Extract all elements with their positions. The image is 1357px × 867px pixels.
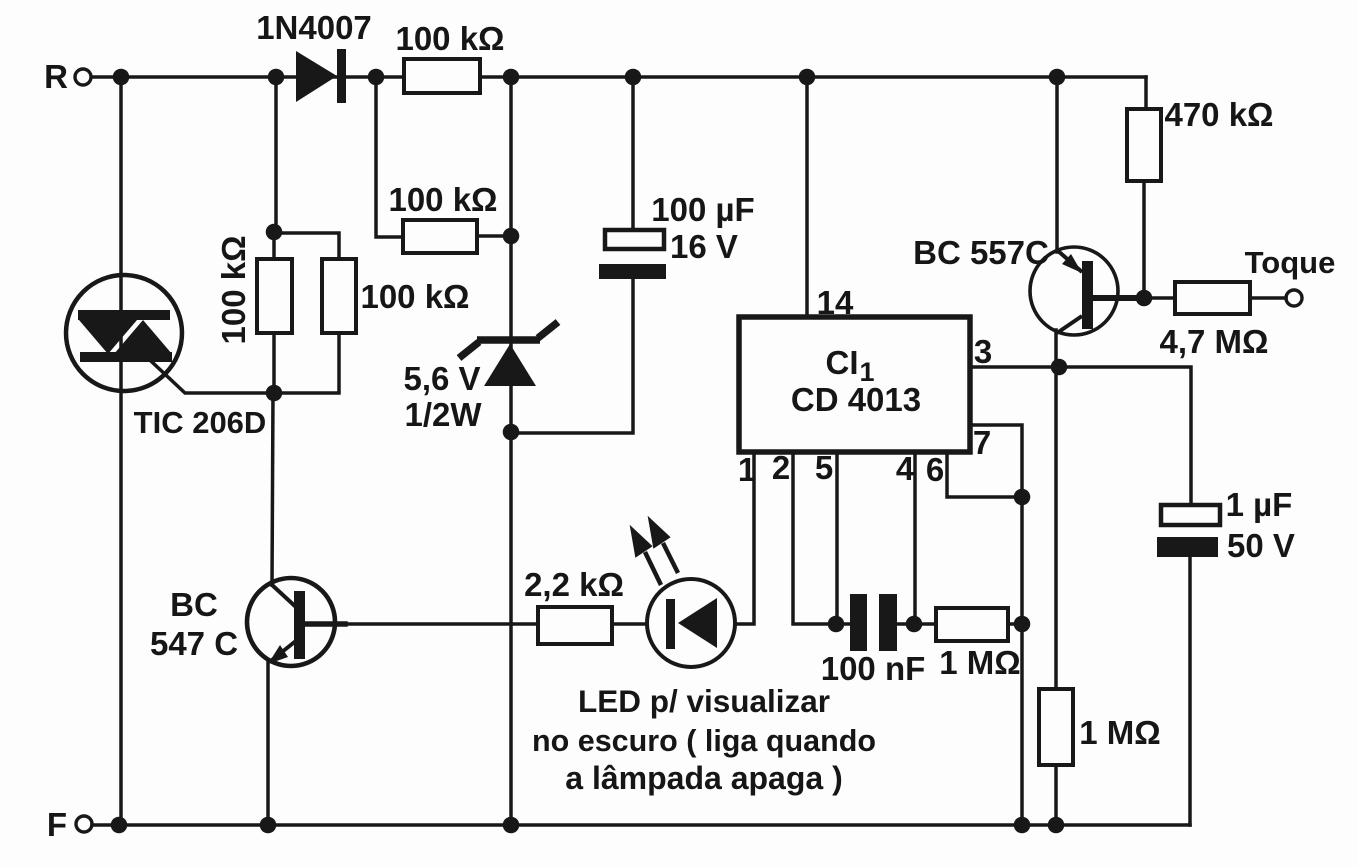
svg-text:1 MΩ: 1 MΩ — [939, 644, 1020, 681]
op-amp U1 CD4013 box — [739, 317, 970, 452]
wire 4.7M to Toque terminal — [1250, 296, 1286, 300]
wire pin 3 to 1uF — [970, 367, 1191, 505]
svg-text:100 kΩ: 100 kΩ — [395, 20, 504, 57]
resistor R5 2.2k — [538, 607, 612, 644]
junction second 100k right — [503, 228, 520, 245]
svg-text:R: R — [44, 58, 68, 95]
junction pin 4 node — [906, 616, 923, 633]
wire pin 5 — [835, 452, 839, 624]
resistor R3 100k vertical left — [257, 259, 292, 333]
wire 100uF bottom to zener node — [511, 279, 633, 433]
wire pin 7 — [970, 425, 1022, 497]
wire TIC gate — [152, 362, 274, 393]
wire BC547 base to 2.2k — [304, 621, 345, 627]
junction BC547 emitter rail — [260, 817, 277, 834]
svg-text:4: 4 — [896, 450, 915, 487]
junction TIC gate node — [266, 385, 283, 402]
resistor R7 1M vertical — [1039, 689, 1073, 765]
svg-text:1: 1 — [738, 451, 756, 488]
wire left vertical R-to-F — [119, 77, 123, 825]
svg-text:100 kΩ: 100 kΩ — [360, 278, 469, 315]
junction 1M right — [1014, 616, 1031, 633]
resistor R6 1M horizontal — [936, 608, 1008, 641]
wire BC557 collector vertical — [1054, 330, 1058, 689]
wire pin 14 — [805, 77, 809, 317]
svg-text:1/2W: 1/2W — [404, 396, 482, 433]
svg-text:F: F — [47, 806, 67, 843]
transistor Q1 BC547 — [247, 578, 335, 666]
svg-text:4,7 MΩ: 4,7 MΩ — [1160, 323, 1269, 360]
svg-text:50 V: 50 V — [1227, 527, 1295, 564]
LED arrows — [633, 522, 678, 585]
wire 1uF bottom — [1188, 557, 1192, 825]
junction diode anode — [268, 69, 285, 86]
svg-text:16 V: 16 V — [670, 228, 738, 265]
svg-text:7: 7 — [973, 424, 991, 461]
svg-text:LED p/ visualizar: LED p/ visualizar — [578, 683, 830, 719]
junction zener branch top — [503, 69, 520, 86]
svg-text:547 C: 547 C — [150, 625, 238, 662]
diode D1 1N4007 — [296, 49, 346, 103]
svg-text:6: 6 — [926, 451, 944, 488]
junction diode cathode — [368, 69, 385, 86]
wire parallel 100k left top — [272, 232, 276, 259]
junction pins 6-7 — [1014, 489, 1031, 506]
junction left rail top — [113, 69, 130, 86]
wire bottom rail — [92, 823, 1190, 827]
svg-text:5: 5 — [815, 449, 833, 486]
wire zener branch vertical — [509, 77, 513, 825]
resistor R9 4.7M — [1175, 282, 1250, 314]
svg-text:TIC 206D: TIC 206D — [134, 405, 267, 440]
svg-text:470 kΩ: 470 kΩ — [1164, 96, 1273, 133]
wire 1M right — [1008, 622, 1022, 626]
wire 100nF right plate to 1M — [897, 622, 936, 626]
svg-text:BC 557C: BC 557C — [913, 234, 1049, 271]
svg-text:100 µF: 100 µF — [651, 191, 754, 228]
svg-text:1N4007: 1N4007 — [256, 9, 372, 46]
zener diode Z1 5.6V — [459, 322, 558, 386]
wire second 100k resistor right — [477, 234, 511, 238]
junction pin3 collector — [1051, 359, 1068, 376]
svg-text:100 kΩ: 100 kΩ — [215, 235, 252, 344]
wire to second 100k resistor left — [376, 77, 403, 237]
transistor Q2 BC557 — [1030, 247, 1118, 335]
wire pins 6-7 vertical to rail — [1020, 497, 1024, 825]
svg-text:3: 3 — [974, 333, 992, 370]
wire parallel 100k right bottom — [274, 333, 339, 393]
capacitor C1 100uF — [599, 230, 666, 279]
wire 100nF left plate — [836, 622, 850, 626]
wire parallel 100k left bottom — [272, 333, 276, 393]
junction BC557 emitter — [1049, 69, 1066, 86]
svg-text:Toque: Toque — [1245, 245, 1336, 280]
wire 100uF top — [631, 77, 635, 230]
wire 470k bottom — [1142, 181, 1146, 298]
svg-text:CI: CI — [826, 344, 859, 381]
resistor R1 100k top — [404, 59, 480, 93]
junction pins67 rail — [1014, 817, 1031, 834]
capacitor C2 100nF — [850, 594, 897, 651]
junction zener branch rail — [503, 817, 520, 834]
svg-text:no escuro ( liga quando: no escuro ( liga quando — [532, 724, 876, 758]
wire pin 1 to LED — [735, 452, 754, 624]
wire BC557 emitter feed — [1055, 77, 1059, 252]
svg-text:100 kΩ: 100 kΩ — [388, 181, 497, 218]
svg-text:a lâmpada apaga ): a lâmpada apaga ) — [565, 760, 842, 796]
wire pin 4 — [913, 452, 917, 624]
resistor R4 100k vertical right — [322, 259, 356, 333]
svg-text:14: 14 — [817, 284, 854, 321]
wire pin 2 — [793, 452, 836, 624]
junction collector rail — [1048, 817, 1065, 834]
junction BC557 base node — [1136, 290, 1153, 307]
wire BC557 base lead — [1092, 295, 1144, 301]
svg-text:5,6 V: 5,6 V — [403, 360, 480, 397]
wire 1M vertical bottom — [1054, 765, 1058, 825]
wire top rail — [92, 75, 1146, 79]
junction pins 2-5 — [828, 616, 845, 633]
triac TIC 206D — [66, 275, 182, 391]
wire rail corner to 470k — [1144, 77, 1148, 109]
resistor R8 470k — [1127, 109, 1161, 181]
svg-text:1 MΩ: 1 MΩ — [1079, 714, 1160, 751]
junction parallel resistors top — [266, 224, 283, 241]
LED D2 — [647, 579, 735, 667]
junction F rail left — [111, 817, 128, 834]
junction 100uF top — [625, 69, 642, 86]
wire BC547 collector vertical — [272, 393, 273, 585]
capacitor C3 1uF — [1157, 505, 1220, 557]
node Toque terminal — [1286, 290, 1302, 306]
svg-text:BC: BC — [170, 586, 218, 623]
wire BC547 base continue — [345, 622, 538, 626]
wire diode anode drop — [274, 77, 278, 232]
node F terminal — [76, 816, 92, 832]
svg-text:1 µF: 1 µF — [1226, 486, 1293, 523]
wire parallel 100k right top — [274, 233, 339, 259]
wire base node to 4.7M — [1144, 296, 1175, 300]
wire 2.2k to LED — [612, 622, 647, 626]
svg-text:2: 2 — [772, 449, 790, 486]
junction below zener — [503, 424, 520, 441]
wire pin 6 — [947, 452, 1022, 497]
node R terminal — [75, 69, 91, 85]
resistor R2 100k second — [403, 220, 477, 253]
svg-text:CD 4013: CD 4013 — [791, 381, 921, 418]
wire BC547 emitter to rail — [266, 661, 270, 825]
svg-text:100 nF: 100 nF — [821, 650, 926, 687]
junction pin 14 — [799, 69, 816, 86]
svg-text:2,2 kΩ: 2,2 kΩ — [524, 566, 624, 603]
